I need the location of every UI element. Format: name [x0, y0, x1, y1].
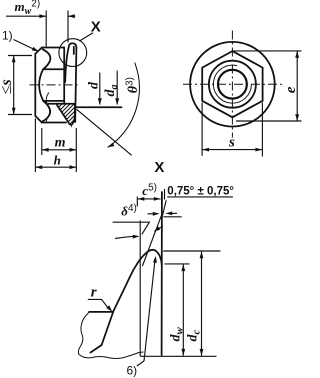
- bearing angle tolerance underline: [167, 196, 233, 198]
- detail nut body break line bottom: [79, 352, 144, 359]
- side view left face: [34, 54, 36, 116]
- cone angle delta left arrow: [115, 235, 140, 239]
- cone angle delta text: [121, 203, 137, 219]
- detail flange profile (cone, crest, bearing corner): [91, 250, 162, 353]
- dimension s extension line bottom: [8, 114, 32, 116]
- dimension dc line with arrows: [200, 251, 204, 355]
- dimension e extension line top: [234, 50, 302, 52]
- dimension c text: [142, 183, 157, 199]
- side view hex corner line upper: [43, 68, 64, 70]
- side view flange lip rounded top: [69, 43, 77, 47]
- side view top face silhouette: [42, 47, 64, 49]
- thread major arc: [213, 65, 251, 103]
- dimension m_w extension line left: [45, 11, 47, 47]
- dimension c line with arrows: [138, 197, 161, 201]
- dimension m_w extension line right: [67, 11, 69, 43]
- dimension s extension line top: [8, 55, 32, 57]
- dimension da arrow line: [115, 71, 119, 105]
- side view chamfer arc bottom face: [42, 101, 50, 122]
- dimension s line with arrows: [12, 56, 16, 115]
- side view flange cone silhouette upper: [65, 47, 69, 82]
- svg-text:0,75° ± 0,75°: 0,75° ± 0,75°: [167, 186, 234, 198]
- dimension m line with arrows: [42, 148, 77, 152]
- detail title X: [154, 159, 164, 176]
- dimension e line with arrows: [295, 51, 299, 121]
- detail X leader line: [80, 33, 94, 41]
- detail cone extension line: [142, 212, 162, 266]
- side view hex corner line lower: [43, 100, 64, 102]
- svg-text:≤s: ≤s: [0, 79, 15, 94]
- svg-text:h: h: [54, 152, 61, 167]
- detail X circle: [59, 39, 87, 67]
- svg-text:d: d: [86, 81, 101, 89]
- dimension s extension line right (end view): [261, 103, 263, 157]
- cone angle delta leader: [113, 222, 150, 234]
- detail nut body break line left: [78, 313, 88, 355]
- svg-text:r: r: [91, 285, 97, 301]
- dimension h extension line left: [34, 119, 36, 173]
- footnote 6) reference arrow to bearing face: [144, 256, 157, 361]
- side view chamfer arc top face: [43, 49, 51, 69]
- chamfer circle: [209, 61, 256, 108]
- svg-text:X: X: [154, 159, 164, 176]
- dimension s extension line left (end view): [201, 103, 203, 156]
- footnote label 1): [2, 29, 13, 43]
- footnote label 6): [127, 364, 138, 378]
- radius r leader with arrow: [88, 299, 113, 311]
- detail bottom reference line: [140, 355, 216, 357]
- dimension e extension line bottom: [236, 120, 302, 122]
- bearing angle tolerance text: [167, 186, 234, 198]
- dimension s line with arrows (end view): [202, 148, 262, 152]
- bearing angle right arrow: [165, 212, 177, 216]
- bearing angle reference stub: [163, 216, 181, 218]
- dimension m_w line right with arrow: [68, 14, 75, 18]
- detail X label: [91, 18, 101, 35]
- footnote 1) leader line: [14, 40, 39, 52]
- d/da reference line: [76, 106, 121, 108]
- side view bottom-left chamfer: [35, 116, 42, 123]
- detail nut body top face: [89, 311, 113, 313]
- thread hole circle: [218, 70, 247, 99]
- side view top-left chamfer: [35, 48, 42, 54]
- detail tilted bearing face line (0.75deg exaggerated): [162, 200, 166, 217]
- dimension m_w value text: [15, 0, 41, 17]
- dimension m/h extension line right: [75, 128, 77, 172]
- dimension d rotated text: [86, 81, 101, 89]
- dimension s text (end view): [228, 135, 235, 151]
- svg-text:s: s: [228, 135, 235, 151]
- svg-text:e: e: [283, 86, 299, 93]
- end view vertical centerline: [231, 31, 233, 138]
- side view bottom face silhouette: [42, 122, 66, 124]
- side view flange cone section boundary: [57, 105, 75, 125]
- cone angle delta right arrow: [154, 226, 163, 231]
- side view break line of broken-out section: [46, 93, 49, 124]
- side view thread hole line (section): [49, 103, 75, 105]
- svg-text:6): 6): [127, 364, 138, 378]
- section hatching: [34, 96, 102, 132]
- dimension h text: [54, 152, 61, 167]
- flange circle: [190, 42, 275, 127]
- dimension dc rotated text: [186, 330, 203, 342]
- svg-text:1): 1): [2, 29, 13, 43]
- dimension dw line with arrows: [181, 264, 185, 355]
- hexagon outline: [202, 51, 262, 117]
- dimension d arrow line: [98, 73, 102, 106]
- dimension m text: [55, 135, 66, 150]
- side view hex-to-flange junction edge: [63, 48, 65, 104]
- side view bearing face edge: [75, 48, 76, 123]
- cone angle delta reference line: [139, 221, 141, 357]
- footnote 6) leader line: [137, 361, 144, 366]
- dimension dw reference line: [165, 263, 190, 265]
- dimension s (across flats) rotated text: [0, 79, 15, 94]
- end view horizontal centerline: [183, 83, 284, 85]
- dimension da rotated text: [103, 85, 120, 97]
- dimension dw rotated text: [169, 327, 186, 342]
- flange cone extension line: [76, 109, 131, 155]
- dimension m_w line left with arrow: [6, 14, 46, 18]
- svg-text:m: m: [55, 135, 66, 150]
- dimension m extension line left: [41, 128, 43, 155]
- bearing angle left arrow: [148, 212, 160, 216]
- detail bearing face vertical line: [161, 192, 163, 355]
- dimension e rotated text: [283, 86, 299, 93]
- side view centerline (axis): [30, 84, 78, 86]
- dimension c extension line left: [136, 197, 138, 207]
- theta angle rotated text: [125, 77, 142, 93]
- side view chamfer arc middle face: [39, 69, 43, 101]
- dimension c extension tick right: [164, 189, 166, 200]
- side view flange lip inner line: [73, 47, 75, 54]
- dimension dc reference line: [163, 250, 220, 252]
- radius r text: [91, 285, 97, 301]
- dimension h line with arrows: [35, 165, 76, 169]
- theta angle arc with arrow: [108, 63, 140, 148]
